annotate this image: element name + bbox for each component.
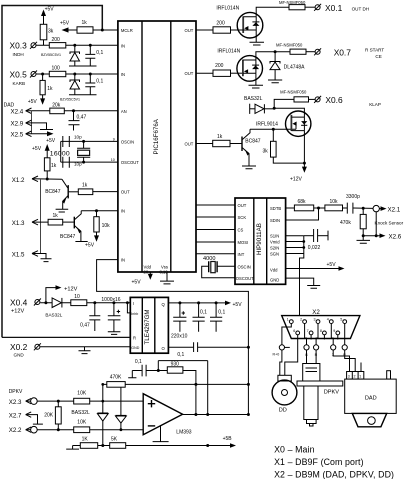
svg-text:+5V: +5V [60,21,70,27]
svg-text:X0.7: X0.7 [334,47,352,57]
pin 4 [329,320,333,324]
ground (Q2 source) [249,73,264,88]
svg-text:DAD: DAD [365,395,377,401]
resistor 200 (X0.3) [49,43,66,48]
resistor 1k (Q4 base) [213,140,230,146]
svg-text:3: 3 [314,318,316,322]
resistor 1k (X1.2 pullup) [44,158,50,171]
svg-text:X2.7: X2.7 [9,413,22,420]
svg-text:SCK: SCK [238,215,247,220]
svg-text:3: 3 [348,375,350,379]
svg-text:1K: 1K [82,437,89,443]
node 220x10 junction [178,301,181,304]
node cap2 top [89,73,92,76]
svg-text:X0.1: X0.1 [325,3,343,13]
power symbol +12V (arrow right) [46,288,58,303]
svg-text:OSCOUT: OSCOUT [121,160,139,165]
svg-text:X0.4: X0.4 [10,298,28,308]
wire shield X2.1 to X2.6 [375,212,377,236]
wire pin8 stub [323,335,325,340]
svg-text:Vmid: Vmid [270,240,280,245]
svg-text:1k: 1k [51,163,57,169]
svg-text:MCLR: MCLR [121,28,133,33]
diode clamp 2 [116,414,127,416]
svg-text:X2: X2 [312,309,320,316]
wire Q2 drain to fuse row2 [256,52,290,60]
svg-text:OSCIN: OSCIN [121,139,134,144]
resistor 5K [110,443,126,449]
resistor 470K [107,382,125,388]
wire OSCIN (pin 9) [61,140,118,142]
wire zener/cap common rail (row1) [69,65,97,67]
IC U3 HIP9011AB body [235,198,286,284]
svg-text:0,1: 0,1 [135,359,142,365]
svg-text:KLAP: KLAP [369,102,381,107]
svg-text:IN: IN [121,209,125,214]
svg-text:8: 8 [320,329,322,333]
wire PIC OUT row1 [196,29,213,31]
resistor 100 (X0.5) [49,71,66,76]
svg-text:BC847: BC847 [245,138,261,144]
wire HIP Vdd +5V [286,268,341,270]
svg-text:470k: 470k [340,220,351,226]
wire TLE O reset out [168,346,193,348]
wire X2.6 row [363,235,379,237]
svg-text:1k: 1k [47,86,53,92]
wire Q4 source to +12V [303,131,305,168]
svg-text:9: 9 [113,138,115,142]
wire X2.4 row [26,110,118,112]
wire pin1 to R+0 [282,324,291,345]
ground (+5B rail left) [66,446,79,450]
svg-text:0,1: 0,1 [200,309,207,315]
svg-text:OUT: OUT [185,28,194,33]
svg-text:DL4748A: DL4748A [284,64,306,70]
diode clamp 1 [97,412,108,414]
wire G to DPKV [306,350,308,364]
svg-text:X0.3: X0.3 [10,41,28,51]
node 0,47 junction [72,109,75,112]
node 0,47 supply junction [93,301,96,304]
resistor 10K (X2.2) [74,427,90,433]
svg-text:220x10: 220x10 [171,334,188,340]
op-amp U4 LM393 [143,394,182,435]
pin 1 [289,320,293,324]
resistor 20K (vertical) [57,401,59,430]
wire DAD pin1 stub [360,363,362,372]
wire vertical bus X2.4..X2.5 [31,111,33,134]
ground (PIC Vss) [160,272,174,284]
svg-text:OUT: OUT [238,203,247,208]
node X2.6 junctions [362,234,365,237]
ground (op-amp) [153,425,169,441]
svg-text:0,022: 0,022 [308,245,321,251]
svg-text:1k: 1k [53,213,59,219]
wire crystal caps common bar [60,141,62,162]
node gate/3k junction [272,128,275,131]
resistor 1K [80,443,97,449]
svg-text:DPKV: DPKV [9,389,23,395]
node 1K/5K junction [101,444,104,447]
pin 5 [343,320,347,324]
wire cap to X2.1 [353,207,373,209]
connector X0.6 [315,97,320,102]
svg-text:X1.3: X1.3 [12,220,25,227]
wire R to DAD pin2 [345,350,356,372]
power symbol +5V (PIC Vdd) [149,272,151,276]
resistor 3k (gate-source) [272,129,274,141]
svg-text:+5V: +5V [132,280,142,286]
svg-text:10: 10 [111,158,115,162]
power symbol +5V (down arrow under 10k) [96,232,98,237]
diode BAS32L (supply) [52,298,61,308]
wire X2.3 row [37,400,143,402]
svg-text:SGN: SGN [270,252,279,257]
svg-text:IRFL014N: IRFL014N [217,49,240,55]
pin hook Inhb [127,303,130,313]
sensor DAD [347,372,364,380]
pin 7 [309,331,313,335]
svg-text:5: 5 [340,318,342,322]
svg-text:OUT: OUT [185,142,194,147]
resistor 1k (MCLR pullup) [77,27,93,33]
svg-text:X2.4: X2.4 [11,108,24,115]
svg-text:200: 200 [52,37,61,43]
connector X0.3 [31,43,36,48]
svg-text:DD: DD [279,407,287,413]
wire X0.5 row [36,73,118,75]
ground (X0.2) [79,347,91,354]
svg-text:X0 – Main: X0 – Main [274,445,315,455]
ground (X1.5) [41,259,52,262]
node diode row3 junction [273,107,276,110]
svg-text:R START: R START [365,48,384,53]
capacitor 0,1 (reset) [194,342,198,352]
svg-text:KARB: KARB [13,81,26,86]
wire SPI SCK [196,216,235,218]
wire SPI OUT PIC-HIP [196,204,235,206]
svg-text:CE: CE [375,54,381,59]
wire op-amp output [183,414,249,416]
link 3 (DAD) [331,345,336,350]
node 10k junction [95,209,98,212]
svg-text:SDTB: SDTB [270,206,281,211]
svg-text:3300p: 3300p [346,194,360,200]
node 1000x16 junction [112,301,115,304]
wire OSCOUT (pin 10) [61,161,118,163]
svg-text:7: 7 [307,329,309,333]
ground (HIP GND) [286,278,321,288]
svg-text:3k: 3k [263,148,269,154]
svg-text:X1.5: X1.5 [12,252,25,259]
capacitor 0,1 (rail a) [193,303,205,332]
wire reset to net [198,346,249,348]
ground (X1.2 emitter) [56,209,69,212]
svg-text:INDH: INDH [13,52,24,57]
wire SDIN loop [286,208,319,220]
node MCLR junction [101,29,104,32]
svg-text:X2.5: X2.5 [11,132,24,139]
resistor 1k (X1.3 base) [48,219,63,225]
capacitor 220x10 electrolytic [173,303,186,332]
resistor 1k (X0.5 pull) [42,74,44,80]
resistor 3k [40,24,47,40]
connector X0.7 [315,49,320,54]
capacitor 0,1 (row2) [89,74,91,83]
wire 3 to DAD pin3 [333,350,349,372]
svg-text:HIP9011AB: HIP9011AB [256,223,263,255]
svg-text:R: R [133,336,136,341]
svg-text:1k: 1k [82,20,88,26]
wire 470K rail [103,383,249,385]
svg-text:0,1: 0,1 [96,50,103,56]
wire X0.3 row [36,44,118,46]
ground (Q1 source) [250,30,265,45]
wire S2IN stub [286,247,304,249]
wire clamp vertical A [102,384,104,445]
zener diode BZV55C5V1 (row2) [74,74,76,80]
pin 9 [336,331,340,335]
capacitor 0,022 [304,235,313,237]
svg-text:IRFL014N: IRFL014N [216,6,239,12]
power symbol +5V (top) [43,12,45,24]
node cap1 top [89,44,92,47]
wire SPI CS [196,229,235,231]
svg-text:Vdd: Vdd [270,268,278,273]
node zener DL4748A top [274,50,277,53]
wire X2.5 to +5V [26,133,50,135]
svg-text:+5V: +5V [85,243,95,249]
svg-text:DPKV: DPKV [324,389,340,395]
pin 8 [323,331,327,335]
pin 2 [303,320,307,324]
ground (X1.3 emitter) [75,241,87,243]
svg-text:+5V: +5V [233,302,243,308]
zener diode BZV55C5V1 (row1) [74,45,76,52]
svg-text:1k: 1k [82,183,88,189]
wire pin5 to R [344,324,346,345]
wire Q4 drain node [274,99,304,117]
resistor 10k (knock) [325,205,343,211]
svg-text:X1 – DB9F (Com port): X1 – DB9F (Com port) [274,457,364,467]
power symbol +5V (down arrow under 1k) [42,95,44,100]
svg-text:68k: 68k [298,199,307,205]
wire PIC OUT row3 [196,143,213,145]
svg-text:1k: 1k [217,134,223,140]
wire PIC OUT row2 [196,72,213,74]
svg-text:10p: 10p [74,135,82,140]
svg-text:GND: GND [270,278,279,283]
capacitor 0,1 (rail b) [210,303,222,332]
wire +5V rail from Q [168,302,227,304]
svg-text:X2.6: X2.6 [389,233,402,240]
svg-text:4: 4 [327,318,329,322]
svg-text:IN: IN [121,258,125,263]
resistor 10k [96,211,98,217]
wire Vmid stub [286,241,304,243]
resistor 68k [294,205,313,211]
wire pin7 stub [310,335,312,340]
svg-text:930: 930 [171,361,180,367]
svg-text:200: 200 [215,63,224,69]
svg-text:GND: GND [131,346,139,350]
svg-text:3k: 3k [48,29,54,35]
svg-text:X0.5: X0.5 [10,70,28,80]
wire INT [196,253,235,255]
wire pin2 to G [305,324,307,345]
svg-text:X2 – DB9M (DAD, DPKV, DD): X2 – DB9M (DAD, DPKV, DD) [274,470,394,479]
wire 68k-10k [314,207,325,209]
capacitor 10p (upper) [63,136,70,147]
svg-text:6: 6 [293,329,295,333]
wire feedback top rail [158,361,207,415]
svg-text:0,1: 0,1 [218,309,225,315]
svg-text:10k: 10k [330,199,339,205]
svg-text:Inhb: Inhb [131,312,138,316]
wire pin4 to 3 [331,324,333,345]
wire SPI MOSI [196,241,235,243]
svg-text:OSCIN: OSCIN [238,264,251,269]
wire pin3 to R [316,324,318,345]
svg-text:X2.2: X2.2 [9,427,22,434]
wire TLE R reset [2,336,130,338]
ground (zener row2) [268,80,282,83]
sensor DD [278,375,291,381]
svg-text:BC847: BC847 [60,234,76,240]
svg-text:SDIN: SDIN [270,218,280,223]
link R+0 [279,345,284,350]
node X1.2 / pullup junction [46,178,49,181]
node feedback junction [157,369,160,372]
svg-text:1: 1 [359,375,361,379]
node zener2 top [73,73,76,76]
svg-text:0,47: 0,47 [77,115,87,121]
wire gate row2 [231,72,243,74]
svg-text:X2.1: X2.1 [388,206,401,213]
svg-text:20k: 20k [52,103,61,109]
svg-text:+5V: +5V [32,146,42,152]
svg-text:+5V: +5V [45,7,55,13]
wire R+0 to DD [280,350,282,375]
capacitor 0,47 (supply) [89,303,100,331]
svg-text:1: 1 [287,318,289,322]
wire S1IN stub [286,235,304,237]
wire 1k to base [230,143,242,145]
svg-text:20: 20 [144,269,149,274]
svg-text:470K: 470K [110,374,122,380]
connector X0.1 [315,5,320,10]
svg-text:IN: IN [121,43,125,48]
svg-text:Knock Sensor: Knock Sensor [375,221,404,226]
wire SGND stub [286,253,304,255]
svg-text:I: I [133,301,134,306]
svg-text:10K: 10K [77,420,87,426]
connector X2.1 [373,205,379,211]
svg-text:+5V: +5V [46,138,56,144]
node SDIN junction [317,207,320,210]
svg-text:10p: 10p [74,162,82,167]
zener diode DL4748A [274,52,276,62]
svg-text:0,1: 0,1 [96,79,103,85]
wire pin6 to DD [285,335,298,376]
wire PIC IN reset-net [97,260,249,415]
resistor 1k (X1.2 base) [69,191,79,193]
wire zener/cap common rail (row2) [69,94,97,96]
svg-text:20K: 20K [44,413,54,419]
svg-text:S1IN: S1IN [270,234,279,239]
power symbol +5V (MCLR pullup, left arrow) [66,29,77,31]
wire Q1 drain to fuse [256,7,289,17]
node 20K top [57,400,60,403]
svg-text:BZV55C5V1: BZV55C5V1 [41,53,61,57]
wire collector to PIC IN [81,210,118,212]
sensor DPKV [303,364,320,382]
svg-text:+12V: +12V [11,309,24,315]
svg-text:X0.2: X0.2 [10,342,28,352]
svg-text:BAS32L: BAS32L [71,410,90,416]
node 0,1b junction [215,301,218,304]
capacitor 10p (lower) [63,157,70,168]
ground (feedback cap) [128,371,136,378]
wire X0.2 GND row [40,346,130,348]
resistor 200 (row1 gate) [213,27,231,33]
svg-text:AN: AN [121,109,127,114]
node +12V branch [44,301,47,304]
svg-text:10: 10 [74,294,80,300]
svg-text:10K: 10K [77,390,87,396]
svg-text:1000x16: 1000x16 [101,297,120,303]
svg-text:X2.9: X2.9 [11,121,24,128]
ground (X2.6) [357,236,371,244]
svg-text:5K: 5K [111,437,118,443]
wire X2.2 row [37,429,143,431]
resistor 930 [167,367,183,373]
resistor 10 [71,300,87,306]
svg-text:X2.3: X2.3 [9,399,22,406]
svg-text:GND: GND [14,352,25,357]
capacitor 0,47 [73,111,75,121]
svg-text:+5V: +5V [327,262,337,268]
wire +5B rail [73,445,232,447]
svg-text:INT: INT [238,252,245,257]
svg-text:BAS32L: BAS32L [45,313,62,318]
svg-text:200: 200 [216,20,225,26]
svg-text:0,1: 0,1 [177,352,184,358]
wire pin9 stub [337,335,339,340]
wire 1k to base [63,221,74,223]
svg-text:IN: IN [121,72,125,77]
svg-text:IRFL9014: IRFL9014 [256,121,278,127]
svg-text:CS: CS [238,228,244,233]
IC U2 TLE4267GM body [130,297,168,353]
svg-text:+12V: +12V [64,287,77,293]
node source junction [303,162,306,165]
svg-text:BC847: BC847 [45,189,61,195]
svg-text:+5V: +5V [28,99,38,105]
resistor 10K (X2.3) [74,398,90,404]
svg-text:BZV55C5V1: BZV55C5V1 [60,98,80,102]
svg-text:10k: 10k [102,223,111,229]
resistor 20k [50,108,65,114]
node reset net junction [247,346,250,349]
crystal resonator 16000 [82,140,85,143]
svg-text:S2IN: S2IN [270,246,279,251]
svg-text:OUT: OUT [185,71,194,76]
svg-text:2: 2 [354,375,356,379]
wire R to DPKV [315,350,317,364]
wire MCLR to PIC [93,29,118,31]
svg-text:9: 9 [333,329,335,333]
